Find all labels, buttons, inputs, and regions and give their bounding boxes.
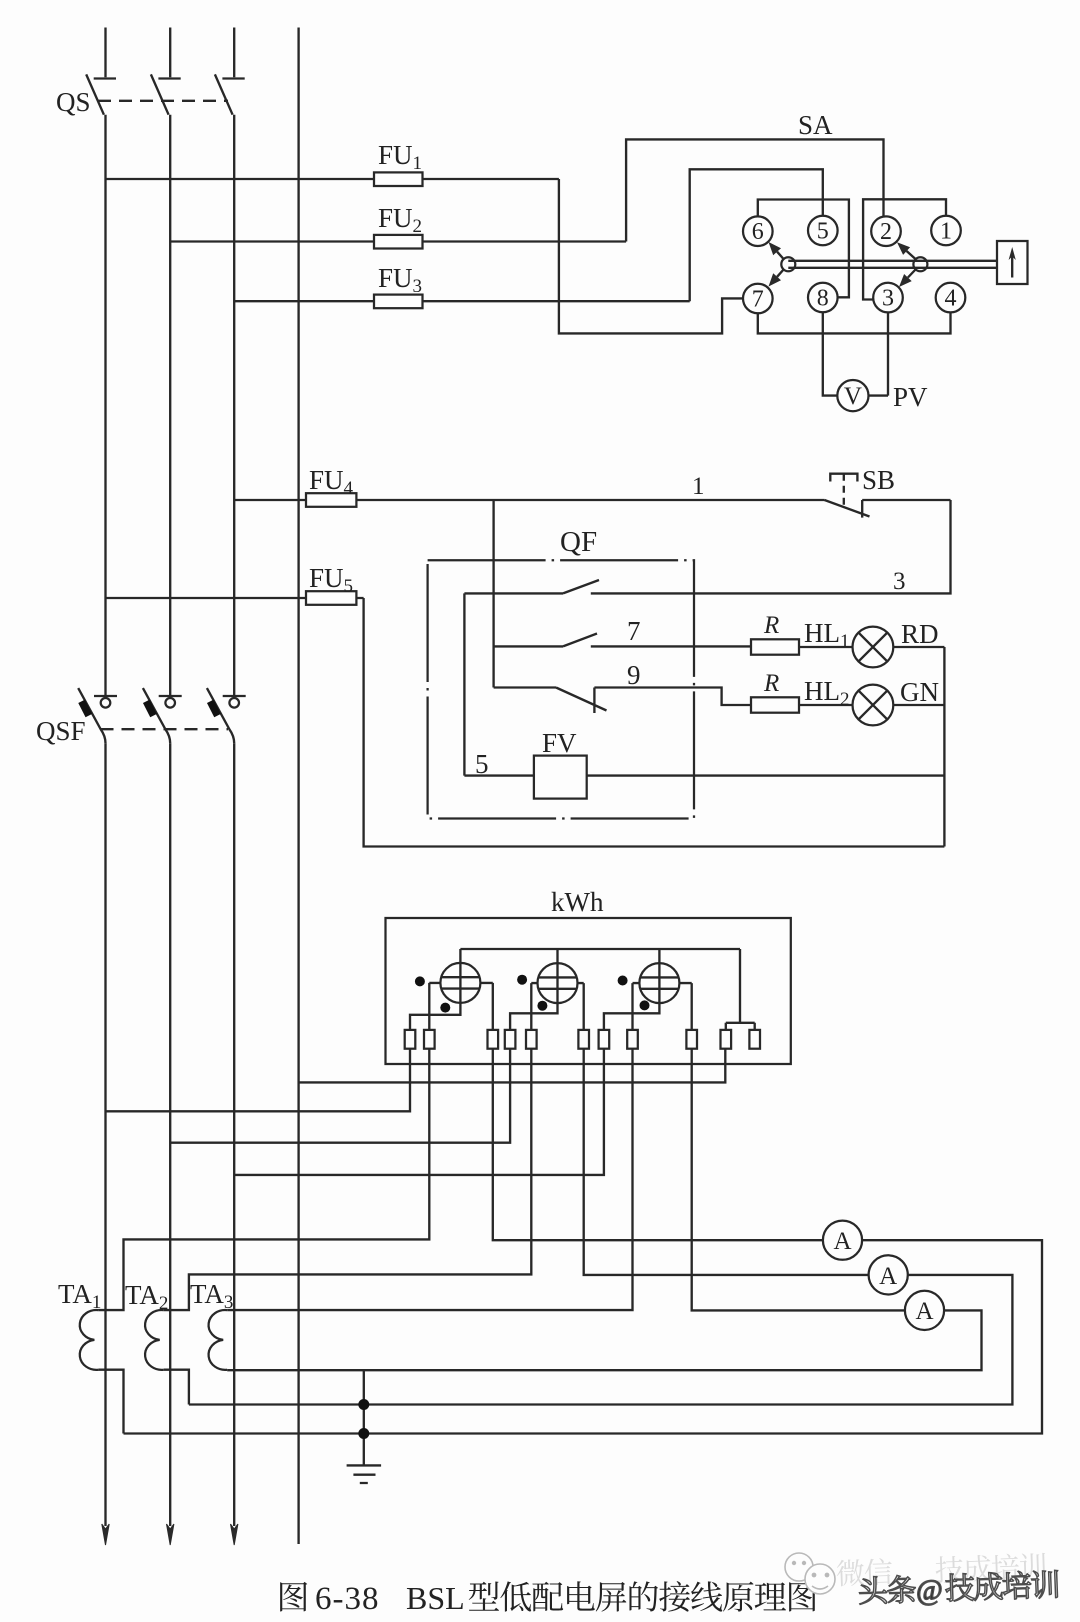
QF contact b (node 7)	[494, 634, 751, 647]
fuse FU3	[374, 295, 423, 309]
kWh terminal 8	[627, 1030, 638, 1049]
breaker QSF pole 1 trip element	[78, 700, 92, 718]
wire FU1 row from L1	[106, 178, 559, 180]
svg-text:FV: FV	[542, 728, 577, 758]
kWh element 2 coil in	[531, 983, 537, 1030]
kWh element 1 coil circle	[440, 963, 480, 1003]
wire T3 to ammeter A1	[493, 1049, 823, 1241]
fuse FU1	[374, 172, 423, 186]
kWh neutral drop and bracket	[726, 949, 755, 1030]
wire node 5 to FV	[464, 774, 534, 776]
kWh element 3 coil in	[633, 983, 640, 1030]
kWh internal voltage bus	[460, 948, 740, 950]
kWh element 1 voltage tap	[410, 949, 460, 1030]
wire TA3 secondary to T8	[227, 1049, 632, 1310]
voltmeter PV	[837, 380, 868, 411]
pushbutton SB plunger	[830, 474, 857, 482]
svg-text:QS: QS	[56, 87, 91, 117]
kWh terminal 10	[721, 1030, 732, 1049]
QSF linkage dashed line	[101, 728, 229, 730]
breaker QSF pole 3 blade	[207, 688, 234, 743]
kWh terminal 7	[599, 1030, 610, 1049]
SA contact 6	[743, 216, 773, 246]
SA contact 1	[931, 216, 961, 246]
kWh element 3 voltage tap	[604, 949, 660, 1030]
wire FU2 row from L2	[170, 240, 626, 242]
svg-text:4: 4	[945, 286, 957, 312]
SA handle box	[997, 241, 1028, 284]
wire FU4 row from L3	[234, 499, 824, 501]
svg-text:A: A	[879, 1263, 897, 1290]
kWh element 2 voltage tap	[510, 949, 557, 1030]
wire HL1 to return	[893, 646, 944, 648]
kWh terminal 6	[578, 1030, 589, 1049]
ground symbol	[347, 1465, 382, 1483]
pushbutton SB blade	[825, 500, 870, 517]
wire R2 to HL2	[799, 704, 853, 706]
current transformer TA1	[80, 1310, 99, 1370]
resistor R (HL1)	[751, 639, 799, 654]
svg-text:5: 5	[817, 219, 829, 245]
kWh terminal 1	[405, 1030, 416, 1049]
wire T1 voltage to bus L1	[106, 1049, 411, 1112]
breaker QSF pole 3 trip element	[207, 700, 221, 718]
breaker QSF pole 1 blade	[78, 688, 105, 743]
wire FU4 drop into QF	[492, 500, 494, 688]
ammeter A3	[905, 1291, 944, 1330]
svg-text:A: A	[915, 1298, 933, 1325]
caption 图 6-38 BSL 型低配电屏的接线原理图	[280, 1580, 816, 1617]
kWh element 2 polarity dot a	[517, 975, 527, 985]
svg-text:6: 6	[752, 219, 764, 245]
wire SA 6 to 8 bracket	[758, 200, 849, 298]
wire SA 7 to 4 bottom bracket	[758, 312, 951, 333]
kWh meter box	[386, 918, 791, 1064]
SA handle arrow	[1011, 253, 1013, 278]
junction dot 1	[358, 1399, 369, 1410]
svg-text:SB: SB	[862, 465, 895, 495]
kWh element 3 coil out	[679, 983, 691, 1030]
disconnect switch QS pole 1	[86, 74, 116, 114]
wire A2 return to common	[189, 1275, 1013, 1405]
breaker QSF pole 2 trip element	[143, 700, 157, 718]
svg-text:R: R	[763, 670, 779, 697]
wire T6 to ammeter A2	[584, 1049, 869, 1275]
wire TA1 secondary to T2	[98, 1049, 429, 1310]
wire T4 voltage to bus L2	[170, 1049, 510, 1143]
wire T7 voltage to bus L3	[234, 1049, 604, 1175]
watermark smiley faces	[785, 1553, 835, 1594]
wire FU1 to SA contact 7	[559, 179, 743, 333]
svg-text:1: 1	[692, 473, 705, 500]
kWh element 2 polarity dot b	[537, 1001, 547, 1011]
bus L3 bottom arrow	[231, 1524, 238, 1545]
FV device box	[534, 756, 587, 799]
SA pivot1 arrow to 6	[777, 252, 784, 260]
kWh terminal 11	[749, 1030, 760, 1049]
wire neutral terminal to bus N	[299, 1049, 726, 1083]
wire SA 1 to 3 bracket	[863, 199, 946, 299]
svg-text:QSF: QSF	[36, 716, 86, 746]
wire FV output	[587, 774, 945, 776]
bus L1 bottom arrow	[102, 1524, 109, 1545]
breaker QSF pole 2 blade	[143, 688, 170, 743]
ammeter A1	[823, 1221, 862, 1260]
wire A1 return to common	[124, 1240, 1043, 1433]
kWh terminal 5	[526, 1030, 537, 1049]
svg-text:BSL: BSL	[406, 1580, 465, 1616]
wire SA 8 to voltmeter	[823, 312, 838, 395]
SA pivot2 arrow to 2	[907, 251, 916, 260]
wire FU5 row from L1	[106, 597, 364, 599]
SA contact 5	[808, 216, 838, 246]
ammeter A2	[869, 1255, 908, 1294]
kWh element 3 polarity dot a	[618, 976, 628, 986]
junction dot 2	[358, 1428, 369, 1439]
svg-text:3: 3	[882, 286, 894, 312]
SA contact 4	[936, 283, 966, 313]
svg-text:RD: RD	[901, 619, 939, 649]
wire TA1 secondary bottom	[98, 1370, 123, 1434]
SA pivot 1	[781, 257, 795, 271]
wire FU3 riser to SA contact 5	[690, 169, 823, 301]
svg-text:QF: QF	[560, 526, 597, 558]
kWh element 1 polarity dot a	[415, 976, 425, 986]
wire T9 to ammeter A3	[692, 1049, 905, 1311]
svg-text:V: V	[844, 383, 862, 410]
pushbutton SB right stub	[862, 500, 950, 518]
svg-text:1: 1	[940, 219, 952, 245]
current transformer TA2	[145, 1310, 164, 1370]
breaker QSF pole 1 contact	[94, 695, 117, 697]
fuse FU4	[306, 493, 356, 507]
fuse FU2	[374, 235, 423, 249]
SA contact 7	[743, 284, 773, 314]
wire SA 3 to voltmeter	[869, 312, 889, 395]
svg-text:SA: SA	[798, 110, 833, 140]
kWh element 1 polarity dot b	[440, 1003, 450, 1013]
kWh terminal 2	[424, 1030, 435, 1049]
kWh element 2 coil circle	[538, 963, 578, 1003]
breaker QSF pole 3 contact	[223, 695, 246, 697]
svg-text:A: A	[833, 1228, 851, 1255]
wire FU2 riser to SA top line	[626, 139, 883, 241]
svg-text:@: @	[915, 1574, 943, 1607]
lamp HL1	[853, 627, 894, 668]
SA shaft double line	[788, 261, 997, 268]
SA pivot 2	[913, 257, 927, 271]
wire TA2 secondary bottom	[164, 1370, 189, 1405]
disconnect switch QS pole 2	[151, 74, 181, 114]
fuse FU5	[306, 591, 356, 605]
wire FU3 row from L3	[234, 300, 690, 302]
kWh element 3 coil circle	[639, 963, 679, 1003]
QS linkage dashed line	[98, 100, 228, 102]
kWh element 1 coil out	[480, 983, 492, 1030]
SA pivot2 arrow to 3	[908, 269, 916, 278]
QF contact c (node 9, NC)	[494, 688, 751, 714]
SA contact 3	[873, 283, 903, 313]
svg-text:kWh: kWh	[551, 887, 604, 917]
bus N (4th) vertical	[297, 28, 299, 1545]
svg-text:PV: PV	[893, 382, 928, 412]
wire A3 return / TA3 bottom common	[227, 1310, 981, 1370]
wire FU5 drop to lamp return	[364, 598, 945, 847]
bus L3 vertical	[233, 28, 235, 1527]
svg-text:R: R	[763, 612, 779, 639]
lamp HL2	[853, 685, 894, 726]
wire R1 to HL1	[799, 646, 853, 648]
SA contact 8	[808, 283, 838, 313]
resistor R (HL2)	[751, 697, 799, 712]
SA pivot1 arrow to 7	[777, 269, 784, 277]
kWh terminal 3	[488, 1030, 499, 1049]
svg-text:7: 7	[627, 616, 641, 646]
bus L2 bottom arrow	[167, 1524, 174, 1545]
svg-text:2: 2	[880, 219, 892, 245]
watermark 头条@技成培训 outlined	[859, 1570, 1059, 1609]
wire SB to node 3	[591, 500, 951, 593]
svg-text:6-38: 6-38	[315, 1581, 380, 1617]
QF contact a (node1-3)	[464, 580, 599, 776]
kWh terminal 9	[686, 1030, 697, 1049]
lamp return riser	[943, 647, 945, 847]
disconnect switch QS pole 3	[215, 74, 245, 114]
bus L1 vertical	[104, 28, 106, 1527]
kWh element 2 coil out	[578, 983, 584, 1030]
kWh element 1 coil in	[429, 983, 440, 1030]
svg-text:GN: GN	[900, 677, 939, 707]
watermark faint 微信 技成培训	[836, 1552, 1046, 1586]
bus L2 vertical	[169, 28, 171, 1527]
breaker QF dash-dot box	[428, 560, 694, 818]
kWh element 3 polarity dot b	[640, 1000, 650, 1010]
svg-text:8: 8	[817, 286, 829, 312]
svg-text:7: 7	[752, 287, 764, 313]
ground riser with junction dots	[363, 1370, 365, 1465]
wire HL2 to return	[893, 704, 944, 706]
svg-text:3: 3	[893, 568, 906, 595]
breaker QSF pole 2 contact	[159, 695, 182, 697]
current transformer TA3	[209, 1310, 228, 1370]
kWh terminal 4	[505, 1030, 516, 1049]
svg-text:5: 5	[475, 749, 489, 779]
SA contact 2	[871, 216, 901, 246]
wire TA2 secondary to T5	[164, 1049, 532, 1310]
svg-text:9: 9	[627, 660, 641, 690]
